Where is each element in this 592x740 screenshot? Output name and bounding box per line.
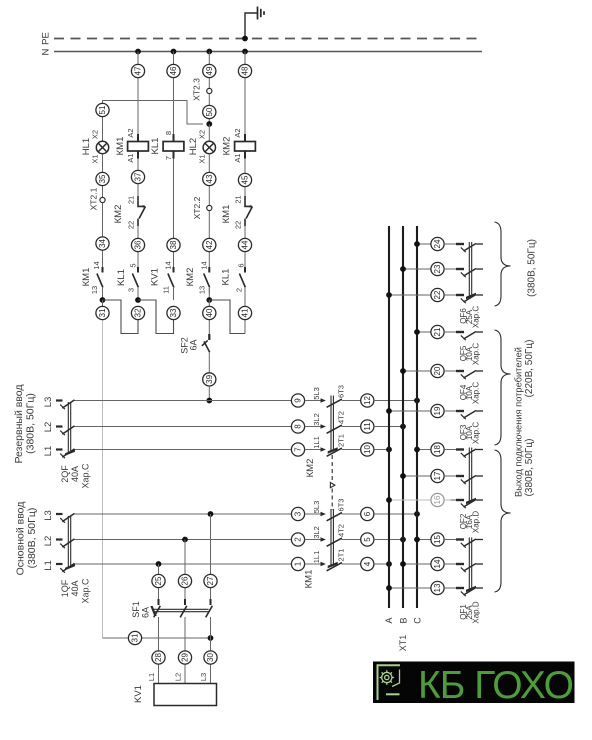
node 38 [167, 238, 180, 251]
breaker 1QF linkage [65, 516, 75, 570]
node 7 [291, 443, 304, 456]
lamp HL1 [81, 130, 108, 164]
node 45 [238, 173, 251, 186]
bus A [388, 226, 390, 608]
svg-text:A2: A2 [233, 128, 242, 137]
breaker QF1 pole 15 [444, 539, 483, 548]
contactor KM1 pole L2 (3L2-4T2) [305, 524, 361, 546]
breaker QF6 linkage [459, 242, 480, 328]
label Резервный ввод [13, 384, 37, 463]
node 48 [238, 64, 251, 77]
svg-text:14: 14 [164, 261, 173, 269]
brace 380V QF1-QF2 group [495, 450, 511, 592]
wire L1 main to bus A [374, 563, 389, 565]
wire contact KM1.22 to node 44 [244, 226, 246, 264]
breaker QF3 10А [444, 411, 483, 445]
svg-text:X1: X1 [91, 154, 100, 163]
breaker QF6 pole 23 [444, 269, 483, 278]
svg-text:SF1: SF1 [131, 601, 141, 618]
junction node B [135, 297, 141, 303]
wire KL1 coil to node 38 [173, 159, 175, 265]
svg-text:39: 39 [205, 374, 214, 383]
breaker QF6 pole 22 [444, 295, 483, 304]
svg-text:4Т2: 4Т2 [337, 411, 346, 424]
svg-text:Выход подключения потребителей: Выход подключения потребителей [514, 347, 524, 497]
wire tap L3 to SF1 [210, 514, 212, 605]
wire XT2.1 to contact KM1.14 [102, 203, 104, 264]
node 32 [131, 306, 144, 319]
wire L3 main [76, 513, 305, 515]
svg-text:48: 48 [241, 66, 250, 75]
svg-text:16: 16 [433, 495, 442, 504]
breaker 2QF pole L3 [56, 400, 76, 409]
svg-text:КМ1: КМ1 [81, 268, 92, 287]
svg-text:L3: L3 [199, 673, 208, 681]
svg-text:A1: A1 [126, 153, 135, 162]
node 43 [203, 172, 216, 185]
wire L2 main to bus B [374, 539, 403, 541]
svg-text:KV1: KV1 [133, 685, 144, 703]
label bus C [413, 617, 423, 624]
node 14 [431, 557, 444, 570]
svg-text:20: 20 [433, 366, 442, 375]
relay coil KL1 [150, 131, 184, 160]
junction tap L3/SF1 [208, 511, 214, 517]
svg-text:КМ2: КМ2 [113, 205, 124, 224]
svg-text:N: N [41, 48, 52, 55]
svg-text:7: 7 [294, 447, 303, 452]
node 20 [431, 364, 444, 377]
junction L3 main/bus C [414, 511, 420, 517]
svg-text:Хар.D: Хар.D [471, 601, 480, 623]
breaker 2QF linkage [65, 402, 75, 456]
contact KL1 6-2 (NO) [221, 263, 246, 293]
label L3 main [43, 510, 54, 521]
contact KM2 13-14 (NO) [185, 261, 209, 294]
wire bus to QF6 row 23 [400, 266, 431, 272]
svg-text:33: 33 [169, 308, 178, 317]
svg-text:6Т3: 6Т3 [337, 499, 346, 512]
svg-text:5: 5 [363, 537, 372, 542]
breaker QF2 linkage [459, 448, 480, 534]
breaker QF1 pole 14 [444, 564, 483, 573]
svg-text:37: 37 [134, 172, 143, 181]
breaker SF1 linkage [131, 601, 209, 618]
svg-text:27: 27 [206, 576, 215, 585]
svg-text:13: 13 [433, 583, 442, 592]
svg-text:HL1: HL1 [81, 138, 92, 155]
node 13 [431, 581, 444, 594]
node 9 [291, 394, 304, 407]
logo КБ ГОХО [373, 662, 575, 708]
svg-text:1: 1 [294, 561, 303, 566]
node 28 [152, 651, 165, 664]
wire L1 reserve [76, 449, 305, 451]
junction L2/bus B [400, 424, 406, 430]
contactor KM1 linkage [304, 509, 338, 588]
node 24 [431, 237, 444, 250]
wire bus to QF2 row 17 [400, 473, 431, 479]
node 40 [203, 306, 216, 319]
breaker 2QF pole L1 [56, 449, 76, 458]
svg-text:КМ1: КМ1 [115, 137, 126, 156]
svg-text:28: 28 [154, 653, 163, 662]
node 49 [203, 64, 216, 77]
node 3 [291, 507, 304, 520]
breaker 1QF pole L3 [56, 513, 76, 522]
node 6 [361, 507, 374, 520]
contactor coil KM1 [115, 128, 148, 162]
breaker QF5 10А [444, 332, 483, 366]
wire KM1 coil to contact KM2.21 [137, 159, 139, 197]
svg-text:КМ1: КМ1 [304, 570, 315, 589]
svg-text:40: 40 [205, 308, 214, 317]
label L1 reserve [43, 446, 54, 457]
wire net 31 vertical [102, 300, 104, 638]
svg-text:A2: A2 [126, 128, 135, 137]
label bus B [399, 617, 409, 623]
svg-text:21: 21 [433, 327, 442, 336]
node 10 [361, 443, 374, 456]
svg-text:L2: L2 [43, 536, 54, 547]
svg-text:КБ ГОХО: КБ ГОХО [418, 664, 574, 707]
svg-text:32: 32 [134, 308, 143, 317]
wire L1 reserve to bus A [374, 449, 389, 451]
junction L1 main/bus A [386, 561, 392, 567]
svg-text:43: 43 [205, 174, 214, 183]
node 18 [431, 443, 444, 456]
node 46 [167, 64, 180, 77]
node 31 [96, 306, 109, 319]
wire bus to QF3 [386, 408, 431, 414]
contact KM1 21-22 (NC) [221, 195, 253, 229]
svg-text:5L3: 5L3 [312, 501, 321, 514]
svg-text:45: 45 [241, 175, 250, 184]
svg-text:14: 14 [92, 261, 101, 269]
wire bus to QF4 [400, 368, 431, 374]
wire contact KM2.22 to node 36 [137, 226, 139, 264]
wire bus to QF5 [414, 329, 431, 335]
svg-text:31: 31 [98, 308, 107, 317]
label 2QF 40A Хар.С [60, 463, 91, 489]
node 23 [431, 262, 444, 275]
svg-text:21: 21 [234, 195, 243, 203]
breaker QF4 10А [444, 371, 483, 405]
node 27 [204, 574, 217, 587]
svg-text:22: 22 [433, 290, 442, 299]
node 19 [431, 404, 444, 417]
junction net 31 / L3 [208, 635, 214, 641]
junction N/XT2.3 branch [206, 49, 212, 55]
breaker QF2 pole 18 [444, 449, 483, 458]
junction N/KL1-coil branch [171, 49, 177, 55]
node 47 [131, 64, 144, 77]
svg-text:23: 23 [433, 264, 442, 273]
svg-text:A: A [384, 617, 394, 623]
breaker 1QF pole L2 [56, 539, 76, 548]
bus C [416, 226, 418, 608]
svg-text:(380В, 50Гц): (380В, 50Гц) [526, 239, 537, 297]
svg-text:1L1: 1L1 [312, 551, 321, 564]
wire N to KL1 coil [173, 52, 175, 135]
svg-text:3L2: 3L2 [312, 413, 321, 426]
svg-text:KL1: KL1 [150, 138, 161, 155]
breaker QF6 pole 24 [444, 244, 483, 253]
svg-text:38: 38 [169, 240, 178, 249]
breaker QF1 linkage [459, 538, 480, 624]
svg-text:Хар.С: Хар.С [471, 343, 480, 365]
node 33 [167, 306, 180, 319]
wire junction to lamp HL2 [208, 124, 210, 141]
node 1 [291, 557, 304, 570]
breaker SF1 pole 3 [206, 599, 213, 684]
svg-text:29: 29 [181, 653, 190, 662]
wire node 51 branch [103, 101, 204, 142]
wire contact KM1.13 to node A [102, 288, 104, 300]
svg-text:3: 3 [294, 511, 303, 516]
svg-text:КМ1: КМ1 [221, 205, 232, 224]
breaker 2QF pole L2 [56, 426, 76, 435]
svg-text:3L2: 3L2 [312, 526, 321, 539]
svg-text:Хар.D: Хар.D [471, 511, 480, 533]
svg-text:Хар.С: Хар.С [471, 382, 480, 404]
wire bus to QF2 row 18 [414, 447, 431, 453]
wire L1 main [76, 563, 305, 565]
wire N to KM2 coil [244, 52, 246, 135]
svg-text:6: 6 [237, 263, 246, 267]
svg-text:49: 49 [205, 66, 214, 75]
wire jumper A to B [103, 300, 139, 334]
svg-text:1L1: 1L1 [312, 436, 321, 449]
svg-text:L1: L1 [43, 446, 54, 457]
svg-text:21: 21 [127, 196, 136, 204]
junction node D [206, 297, 212, 303]
junction tap L2/SF1 [182, 537, 188, 543]
svg-text:(380В, 50Гц): (380В, 50Гц) [26, 508, 38, 569]
relay KV1 box [133, 673, 216, 706]
net N-PE: N bus [41, 48, 482, 55]
svg-text:(380В, 50Гц): (380В, 50Гц) [524, 439, 535, 497]
wire node D to SF2 [208, 300, 210, 334]
svg-text:24: 24 [433, 239, 442, 248]
contact KM2 21-22 (NC) [113, 196, 146, 229]
wire L3 reserve to bus C [374, 400, 417, 402]
svg-text:1QF: 1QF [60, 579, 70, 597]
svg-text:36: 36 [134, 240, 143, 249]
junction L1/bus A [386, 447, 392, 453]
svg-text:ХТ2.3: ХТ2.3 [191, 78, 201, 101]
node 5 [361, 533, 374, 546]
node 29 [178, 651, 191, 664]
svg-text:12: 12 [363, 396, 372, 405]
wire bus to QF6 row 24 [414, 241, 431, 247]
wire L2 reserve [76, 426, 305, 428]
node 36 [131, 238, 144, 251]
svg-text:51: 51 [98, 105, 107, 114]
svg-text:КМ2: КМ2 [222, 137, 233, 156]
breaker SF1 pole 2 [180, 599, 187, 684]
node 37 [131, 170, 144, 183]
svg-text:47: 47 [134, 66, 143, 75]
svg-text:17: 17 [433, 471, 442, 480]
wire jumper D to KL1.2 [209, 300, 245, 334]
svg-text:2: 2 [235, 288, 244, 292]
wire HL1 to XT2.1 [102, 154, 104, 198]
svg-text:41: 41 [241, 308, 250, 317]
svg-text:KL1: KL1 [116, 269, 127, 286]
label Выход подключения потребителей [514, 347, 524, 497]
contactor KM1 pole L1 (1L1-2T1) [305, 549, 361, 571]
terminal XT2.1 [88, 187, 105, 210]
node 22 [431, 288, 444, 301]
node 44 [238, 238, 251, 251]
svg-text:PE: PE [41, 32, 52, 45]
node 4 [361, 557, 374, 570]
svg-text:2Т1: 2Т1 [337, 549, 346, 562]
node 31 repeat [128, 631, 141, 644]
svg-text:11: 11 [162, 286, 171, 294]
svg-text:Основной ввод: Основной ввод [15, 502, 27, 576]
svg-text:ХТ2.2: ХТ2.2 [192, 196, 202, 219]
wire bus to QF2 row 16 [386, 497, 431, 503]
wire N to XT2.3 [208, 52, 210, 89]
node 25 [152, 574, 165, 587]
wire L2 reserve to bus B [374, 426, 403, 428]
contactor KM2 pole L2 (3L2-4T2) [305, 411, 361, 433]
breaker 1QF pole L1 [56, 563, 76, 572]
brace 220V group [495, 330, 511, 445]
svg-text:KL1: KL1 [221, 269, 232, 286]
contact KM1 13-14 (NO) [81, 261, 103, 294]
svg-text:4: 4 [363, 561, 372, 566]
svg-text:L2: L2 [43, 422, 54, 433]
node 42 [203, 238, 216, 251]
svg-text:L3: L3 [43, 397, 54, 408]
wire N to KM1 coil [137, 52, 139, 135]
node 35 [96, 172, 109, 185]
lamp HL2 [188, 130, 215, 164]
svg-text:14: 14 [200, 261, 209, 269]
terminal XT2.2 [192, 196, 212, 219]
svg-text:(220В, 50Гц): (220В, 50Гц) [524, 340, 535, 398]
wire XT2.2 to contact KM2.14 [208, 211, 210, 264]
svg-text:8: 8 [164, 131, 173, 135]
contactor KM2 linkage [305, 396, 337, 478]
svg-text:6А: 6А [141, 607, 151, 618]
svg-text:13: 13 [90, 286, 99, 294]
wire contact KM2.13 to node D [208, 288, 210, 300]
svg-text:Хар.С: Хар.С [81, 578, 91, 604]
wire bus to QF1 row 14 [400, 561, 431, 567]
svg-text:42: 42 [205, 240, 214, 249]
svg-text:Хар.С: Хар.С [471, 306, 480, 328]
junction node A [100, 297, 106, 303]
svg-text:(380В, 50Гц): (380В, 50Гц) [25, 393, 37, 454]
label bus A [384, 617, 394, 623]
svg-text:13: 13 [198, 286, 207, 294]
svg-text:КМ2: КМ2 [305, 459, 316, 478]
wire bus to QF1 row 13 [386, 585, 431, 591]
svg-text:L2: L2 [174, 673, 183, 681]
svg-text:L1: L1 [147, 673, 156, 681]
svg-text:2Т1: 2Т1 [337, 434, 346, 447]
svg-text:30: 30 [206, 653, 215, 662]
svg-text:34: 34 [98, 239, 107, 248]
wire bus to QF1 row 15 [414, 537, 431, 543]
label Основной ввод [15, 502, 39, 576]
node 15 [431, 533, 444, 546]
node 16 [431, 493, 444, 506]
svg-text:35: 35 [98, 174, 107, 183]
svg-text:X2: X2 [91, 130, 100, 139]
svg-text:Резервный ввод: Резервный ввод [13, 384, 25, 463]
node 51 [96, 103, 109, 116]
node 50 [203, 105, 216, 118]
node 11 [361, 420, 374, 433]
junction SF2 / L3 reserve [206, 398, 212, 404]
wire SF2 to L3 line [208, 386, 210, 401]
svg-text:5L3: 5L3 [312, 387, 321, 400]
wire XT2.3 to junction HL2 [208, 94, 210, 124]
svg-text:15: 15 [433, 535, 442, 544]
wire L3 reserve [76, 400, 305, 402]
wire tap L2 to SF1 [184, 540, 186, 606]
contactor KM2 pole L3 (5L3-6T3) [305, 385, 361, 407]
wire contact KV1.11 to jumper [173, 288, 175, 300]
label L2 main [43, 536, 54, 547]
wire net 31 horizontal [103, 637, 211, 639]
breaker SF1 pole 1 [154, 599, 161, 684]
contactor KM1 pole L3 (5L3-6T3) [305, 499, 361, 521]
svg-text:44: 44 [241, 240, 250, 249]
svg-text:Хар.С: Хар.С [81, 463, 91, 489]
svg-text:7: 7 [164, 156, 173, 160]
node 12 [361, 394, 374, 407]
wire L3 main to bus C [374, 513, 417, 515]
svg-text:9: 9 [294, 398, 303, 403]
net N-PE: PE bus (dashed) [41, 32, 482, 45]
svg-text:L3: L3 [43, 510, 54, 521]
junction L2 main/bus B [400, 537, 406, 543]
svg-text:26: 26 [181, 576, 190, 585]
brace 380V QF6 group [495, 222, 511, 306]
junction N/KM2-coil branch [242, 49, 248, 55]
contact KL1 5-3 (NO) [116, 263, 139, 293]
interlock KM2-KM1 [330, 455, 335, 510]
junction PE/ground [242, 36, 248, 42]
bus B [402, 226, 404, 608]
node 34 [96, 237, 109, 250]
svg-text:19: 19 [433, 406, 442, 415]
wire contact KL1.3 to node B [137, 288, 139, 300]
svg-text:2: 2 [294, 537, 303, 542]
svg-text:4Т2: 4Т2 [337, 524, 346, 537]
svg-text:50: 50 [205, 107, 214, 116]
svg-text:40А: 40А [70, 580, 80, 596]
svg-text:6Т3: 6Т3 [337, 385, 346, 398]
node 17 [431, 469, 444, 482]
junction HL2 top [206, 121, 212, 127]
label (380В, 50Гц) bottom [524, 439, 535, 497]
svg-text:40А: 40А [70, 466, 80, 482]
svg-text:X2: X2 [197, 130, 206, 139]
svg-text:22: 22 [127, 221, 136, 229]
wire contact KL1.2 to node 41 [244, 288, 246, 334]
label XT1 [398, 635, 408, 652]
svg-text:ХТ2.1: ХТ2.1 [88, 187, 98, 210]
svg-text:25: 25 [154, 576, 163, 585]
svg-text:3: 3 [127, 288, 136, 292]
